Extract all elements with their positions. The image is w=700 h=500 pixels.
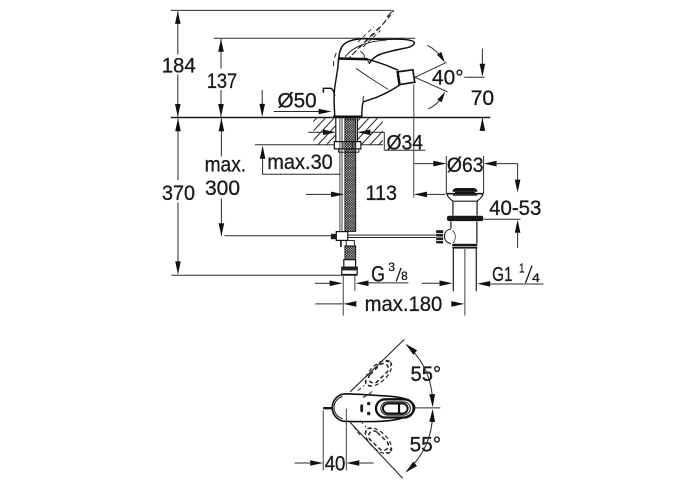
svg-text:Ø63: Ø63 — [447, 154, 484, 177]
svg-text:40: 40 — [325, 453, 346, 476]
svg-text:137: 137 — [207, 70, 238, 93]
svg-text:max.180: max.180 — [365, 293, 443, 316]
svg-text:3: 3 — [388, 262, 395, 274]
svg-text:40-53: 40-53 — [489, 197, 541, 220]
svg-text:113: 113 — [366, 182, 398, 205]
svg-text:8: 8 — [401, 271, 408, 283]
svg-text:70: 70 — [471, 87, 494, 110]
svg-text:55°: 55° — [411, 363, 442, 386]
svg-text:4: 4 — [532, 271, 540, 285]
svg-text:184: 184 — [162, 55, 196, 78]
svg-text:G1: G1 — [492, 263, 512, 286]
svg-text:max.: max. — [205, 153, 247, 176]
svg-text:Ø34: Ø34 — [387, 131, 424, 154]
svg-text:max.30: max.30 — [267, 151, 333, 174]
svg-text:40°: 40° — [432, 66, 464, 89]
svg-text:G: G — [371, 262, 385, 287]
svg-text:300: 300 — [205, 177, 240, 200]
svg-text:1: 1 — [519, 261, 525, 276]
svg-text:Ø50: Ø50 — [278, 90, 317, 113]
svg-text:370: 370 — [162, 182, 195, 205]
svg-text:55°: 55° — [410, 434, 442, 457]
